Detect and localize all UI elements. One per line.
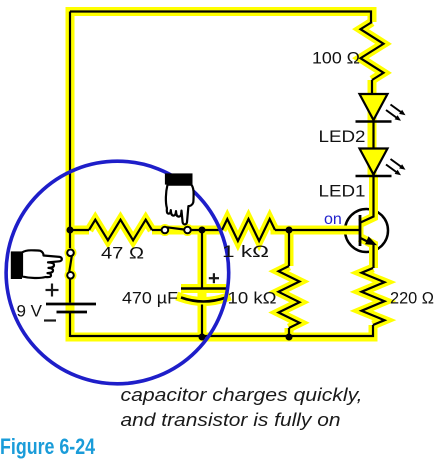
resistor R3 1kohm bbox=[222, 219, 275, 241]
resistor R4 220ohm bbox=[362, 268, 385, 325]
wire 10k upper bbox=[288, 230, 290, 266]
resistor R1 100ohm bbox=[361, 22, 384, 80]
svg-text:Figure 6-24: Figure 6-24 bbox=[0, 434, 96, 459]
switch S1 contacts bbox=[67, 250, 74, 257]
svg-text:10 kΩ: 10 kΩ bbox=[228, 289, 277, 308]
resistor R100 highlight bbox=[361, 22, 384, 80]
transistor Q1 base bar bbox=[359, 215, 362, 246]
wire LED2 to LED1 bbox=[372, 120, 374, 149]
svg-text:470 µF: 470 µF bbox=[122, 289, 178, 308]
yellow highlight layer bbox=[70, 12, 385, 338]
hand icon pointing right bbox=[11, 250, 62, 279]
transistor Q1 circle bbox=[345, 209, 388, 252]
wire emitter vertical bbox=[372, 245, 374, 269]
svg-text:9 V: 9 V bbox=[17, 302, 43, 321]
wire branch: left junction to R47 bbox=[70, 229, 89, 231]
wire 220 to bottom rail bbox=[70, 325, 373, 336]
resistor R220 highlight bbox=[362, 268, 385, 325]
wire pushbutton to cap junction bbox=[191, 229, 222, 231]
resistor R47 highlight bbox=[89, 220, 152, 241]
switch S1 lever (left, closed) bbox=[69, 255, 72, 274]
junction dots bbox=[67, 227, 293, 341]
black wire layer bbox=[70, 12, 385, 338]
node cap bottom bbox=[199, 334, 206, 341]
wire 10k branch highlight bbox=[285, 230, 294, 266]
svg-text:LED1: LED1 bbox=[319, 182, 366, 201]
wire top rail bbox=[70, 12, 371, 23]
resistor R5 10kohm bbox=[279, 266, 300, 328]
wire branch mid highlight bbox=[152, 226, 222, 235]
svg-text:on: on bbox=[324, 211, 342, 228]
wire collector highlight bbox=[360, 176, 374, 224]
pushbutton S2 contacts bbox=[162, 227, 169, 234]
battery B1 plates bbox=[46, 304, 96, 312]
LED2 cathode bar bbox=[356, 120, 392, 123]
svg-text:LED2: LED2 bbox=[319, 127, 366, 146]
svg-text:1 kΩ: 1 kΩ bbox=[222, 242, 269, 261]
wire right LED section highlight bbox=[368, 80, 377, 176]
svg-text:220 Ω: 220 Ω bbox=[390, 289, 434, 308]
highlight circle (blue) bbox=[6, 161, 229, 384]
capacitor C1 arc highlight bbox=[181, 298, 226, 302]
switch S1 contact highlights bbox=[65, 224, 194, 281]
LED1 emission arrows bbox=[386, 159, 406, 175]
transistor Q1 emitter arrowhead bbox=[366, 237, 376, 244]
node 10k bottom bbox=[286, 334, 293, 341]
wire cap branch upper bbox=[201, 230, 203, 288]
resistor R2 47ohm bbox=[89, 220, 152, 241]
node base/10k bbox=[286, 227, 293, 234]
svg-text:47 Ω: 47 Ω bbox=[101, 244, 144, 263]
wire R100 to LED2 bbox=[371, 80, 373, 94]
node cap top bbox=[199, 227, 206, 234]
capacitor C1 plate highlight bbox=[181, 284, 226, 293]
wire base bbox=[275, 229, 359, 231]
node left junction bbox=[67, 227, 74, 234]
capacitor C1 plates bbox=[181, 289, 226, 302]
wire top rail highlight bbox=[70, 7, 372, 16]
pushbutton S2 lever (closed) bbox=[167, 227, 185, 229]
hand icon pointing down bbox=[165, 173, 194, 224]
wire bottom rail highlight bbox=[70, 333, 373, 342]
wire 10k lower bbox=[288, 328, 290, 337]
LED2 emission arrows bbox=[386, 105, 406, 121]
wire emitter highlight bbox=[360, 238, 374, 269]
wire right bottom highlight bbox=[369, 325, 378, 337]
battery minus sign bbox=[44, 319, 56, 321]
svg-text:and transistor is fully on: and transistor is fully on bbox=[121, 409, 341, 430]
wire LED1 to collector bbox=[361, 174, 374, 223]
wire branch left highlight bbox=[70, 226, 89, 235]
LED1 cathode bar bbox=[356, 175, 392, 178]
wire capacitor branch highlight bbox=[198, 230, 207, 337]
resistor R10k highlight bbox=[279, 266, 300, 328]
wire base highlight bbox=[275, 226, 359, 235]
LED1 triangle bbox=[360, 149, 388, 175]
wire cap branch lower bbox=[201, 305, 203, 338]
wire 10k bottom highlight bbox=[285, 328, 294, 337]
svg-text:capacitor charges quickly,: capacitor charges quickly, bbox=[121, 384, 363, 405]
wire R47 to pushbutton bbox=[152, 229, 162, 231]
wire right top highlight bbox=[368, 12, 377, 23]
wire left rail upper bbox=[69, 12, 71, 249]
wire left rail lower bbox=[69, 279, 71, 303]
resistor R1k highlight bbox=[222, 219, 275, 241]
battery plus sign bbox=[44, 284, 59, 321]
capacitor C1 plus sign bbox=[209, 273, 219, 283]
wire left rail highlight bbox=[66, 12, 75, 338]
wire emitter diagonal bbox=[361, 238, 372, 244]
svg-text:100 Ω: 100 Ω bbox=[312, 49, 360, 68]
LED2 triangle bbox=[360, 94, 388, 120]
wire battery to bottom bbox=[69, 313, 71, 337]
